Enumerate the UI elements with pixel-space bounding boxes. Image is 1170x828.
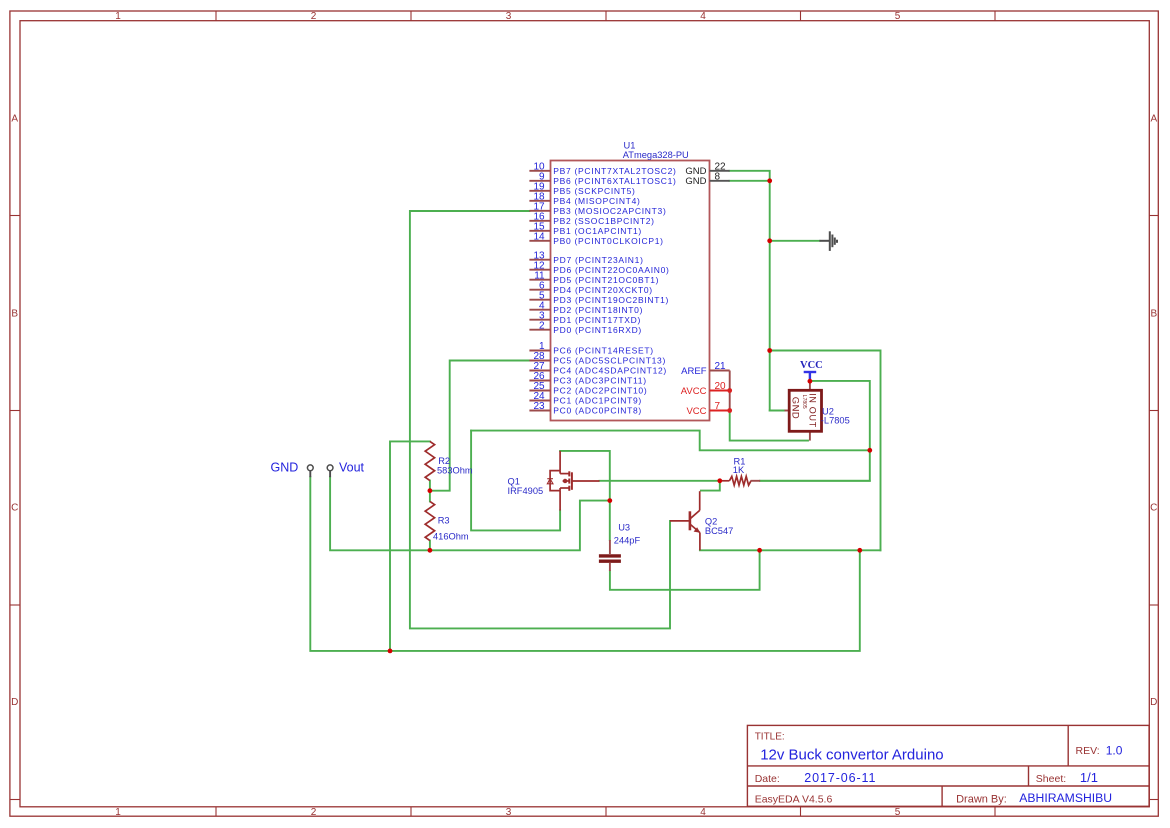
ground	[819, 231, 837, 251]
wire VCC to R1 right	[760, 381, 870, 481]
svg-text:PC3 (ADC3PCINT11): PC3 (ADC3PCINT11)	[553, 376, 646, 386]
svg-text:IN OUT: IN OUT	[807, 393, 817, 428]
svg-text:416Ohm: 416Ohm	[433, 532, 469, 542]
svg-text:244pF: 244pF	[614, 536, 641, 546]
svg-text:2: 2	[311, 807, 317, 818]
wire feedback divider to PC5 pin28	[430, 361, 530, 491]
svg-text:BC547: BC547	[705, 526, 733, 536]
svg-text:20: 20	[715, 381, 727, 392]
wire GND pin8	[730, 180, 770, 182]
svg-text:2: 2	[311, 11, 317, 22]
junction VCC at U2 IN	[808, 379, 813, 384]
svg-text:EasyEDA V4.5.6: EasyEDA V4.5.6	[755, 794, 833, 806]
svg-text:C: C	[11, 503, 18, 514]
svg-text:R2: R2	[438, 456, 450, 466]
svg-text:AREF: AREF	[681, 366, 707, 377]
svg-text:5: 5	[895, 11, 901, 22]
wire R2 top to GND drop	[390, 441, 430, 651]
svg-text:3: 3	[506, 11, 512, 22]
svg-text:1K: 1K	[733, 465, 745, 475]
regulator U2 L7805 pins	[809, 381, 811, 390]
wire GND pin22 to vertical	[730, 171, 770, 181]
svg-text:1/1: 1/1	[1080, 770, 1098, 785]
svg-text:C: C	[1150, 503, 1157, 514]
junction R3 bottom / Vout rail	[428, 548, 433, 553]
svg-text:GND: GND	[789, 397, 800, 419]
wire R1 junction down to Q2 collector	[701, 481, 720, 491]
pin 3 PD1 of U1	[529, 319, 550, 321]
svg-text:PD3 (PCINT19OC2BINT1): PD3 (PCINT19OC2BINT1)	[553, 295, 669, 305]
svg-text:B: B	[1150, 309, 1157, 320]
wire big loop to Q1 drain bottom	[471, 431, 560, 531]
svg-text:R3: R3	[438, 516, 450, 526]
pin 26 PC3 of U1	[529, 380, 550, 382]
svg-text:-L7805: -L7805	[821, 416, 850, 426]
junction AVCC pin 20	[727, 388, 732, 393]
junction GND pins 22-8	[767, 178, 772, 183]
svg-text:PB2 (SSOC1BPCINT2): PB2 (SSOC1BPCINT2)	[553, 216, 654, 226]
pin 1 PC6 of U1	[529, 350, 550, 352]
pin 12 PD6 of U1	[529, 269, 550, 271]
svg-text:PB6 (PCINT6XTAL1TOSC1): PB6 (PCINT6XTAL1TOSC1)	[553, 176, 676, 186]
wire emitter rail y=550	[700, 549, 881, 551]
svg-text:8: 8	[715, 171, 721, 182]
svg-text:23: 23	[533, 401, 545, 412]
pin 15 PB1 of U1	[529, 230, 550, 232]
frame column ticks	[215, 11, 217, 21]
resistor R2 583Ohm	[425, 441, 434, 480]
svg-text:12v Buck convertor Arduino: 12v Buck convertor Arduino	[760, 747, 943, 764]
wire AVCC net down to U2 OUT	[730, 411, 808, 441]
pin 20 AVCC of U1	[710, 390, 730, 392]
wire Vout terminal to R3 bottom and switch node	[330, 477, 610, 550]
svg-text:GND: GND	[271, 461, 299, 475]
junction emitter rail / GND drop	[857, 548, 862, 553]
svg-text:PB3 (MOSIOC2APCINT3): PB3 (MOSIOC2APCINT3)	[553, 206, 666, 216]
svg-text:PD1 (PCINT17TXD): PD1 (PCINT17TXD)	[553, 315, 641, 325]
junction VCC-R1 and wire A	[867, 448, 872, 453]
svg-text:2: 2	[539, 320, 545, 331]
junction GND net right loop	[767, 348, 772, 353]
pin 10 PB7 of U1	[529, 170, 550, 172]
svg-text:REV:: REV:	[1076, 745, 1100, 757]
svg-text:1.0: 1.0	[1106, 744, 1123, 758]
svg-text:PB1 (OC1APCINT1): PB1 (OC1APCINT1)	[553, 226, 642, 236]
wire R3 bottom stub	[429, 541, 431, 551]
pin 4 PD2 of U1	[529, 309, 550, 311]
pin 14 PB0 of U1	[529, 240, 550, 242]
wire Q1 source top to switch node	[560, 451, 610, 540]
pin 11 PD5 of U1	[529, 279, 550, 281]
pin 5 PD3 of U1	[529, 299, 550, 301]
junction R2-R3 divider tap	[428, 488, 433, 493]
pin 16 PB2 of U1	[529, 220, 550, 222]
svg-text:PD5 (PCINT21OC0BT1): PD5 (PCINT21OC0BT1)	[553, 275, 659, 285]
wire Q2 base loop to PB3	[410, 211, 670, 628]
wire GND net right loop	[770, 351, 881, 551]
svg-text:D: D	[11, 697, 18, 708]
pin 19 PB5 of U1	[529, 190, 550, 192]
resistor R3 416Ohm	[425, 501, 434, 540]
svg-text:B: B	[11, 309, 18, 320]
pin 24 PC1 of U1	[529, 400, 550, 402]
svg-text:PB0 (PCINT0CLKOICP1): PB0 (PCINT0CLKOICP1)	[553, 236, 663, 246]
svg-text:14: 14	[533, 231, 545, 242]
svg-text:IRF4905: IRF4905	[508, 486, 544, 496]
wire R2 bottom stub	[429, 481, 431, 491]
svg-text:583Ohm: 583Ohm	[437, 466, 473, 476]
capacitor U3 244pF	[609, 540, 611, 554]
svg-text:PB7 (PCINT7XTAL2TOSC2): PB7 (PCINT7XTAL2TOSC2)	[553, 166, 676, 176]
svg-text:PC5 (ADC5SCLPCINT13): PC5 (ADC5SCLPCINT13)	[553, 356, 666, 366]
svg-text:4: 4	[700, 807, 706, 818]
svg-text:4: 4	[700, 11, 706, 22]
svg-text:A: A	[1150, 114, 1157, 125]
frame row ticks	[10, 215, 20, 217]
svg-text:PD6 (PCINT22OC0AAIN0): PD6 (PCINT22OC0AAIN0)	[553, 265, 669, 275]
svg-text:Q1: Q1	[508, 477, 520, 487]
wire GND vertical bus	[769, 181, 771, 411]
wire U2 left pin to GND bus	[770, 410, 785, 412]
svg-text:PD2 (PCINT18INT0): PD2 (PCINT18INT0)	[553, 305, 643, 315]
transistor Q2 BC547	[670, 491, 700, 550]
pin 18 PB4 of U1	[529, 200, 550, 202]
svg-text:Sheet:: Sheet:	[1036, 773, 1066, 785]
transistor Q1 IRF4905	[550, 451, 599, 511]
svg-text:PB5 (SCKPCINT5): PB5 (SCKPCINT5)	[553, 186, 635, 196]
svg-text:PC0 (ADC0PCINT8): PC0 (ADC0PCINT8)	[553, 406, 642, 416]
pin 23 PC0 of U1	[529, 410, 550, 412]
svg-text:ATmega328-PU: ATmega328-PU	[623, 150, 689, 160]
IC U1 ATmega328-PU body	[551, 161, 710, 421]
junction emitter rail / U3 bottom	[757, 548, 762, 553]
svg-text:A: A	[11, 114, 18, 125]
wire Q1 gate to R1 junction	[600, 480, 720, 482]
svg-text:5: 5	[895, 807, 901, 818]
svg-text:D: D	[1150, 697, 1157, 708]
pin 22 GND of U1	[710, 170, 730, 172]
pin 8 GND of U1	[710, 180, 730, 182]
junction VCC pin 7	[727, 408, 732, 413]
junction switch node at U3 top	[607, 498, 612, 503]
title block	[747, 725, 1149, 806]
pin 27 PC4 of U1	[529, 370, 550, 372]
svg-text:21: 21	[715, 361, 727, 372]
svg-text:PB4 (MISOPCINT4): PB4 (MISOPCINT4)	[553, 196, 640, 206]
wire R1 right green	[760, 480, 870, 482]
svg-text:AVCC: AVCC	[681, 386, 707, 397]
pin 9 PB6 of U1	[529, 180, 550, 182]
svg-text:GND: GND	[685, 176, 706, 187]
svg-text:VCC: VCC	[800, 360, 823, 371]
svg-text:1: 1	[115, 807, 121, 818]
junction R1 left / Q1 gate / Q2 collector	[717, 478, 722, 483]
resistor R1 1K	[722, 480, 729, 482]
svg-text:TITLE:: TITLE:	[755, 732, 785, 743]
svg-text:ABHIRAMSHIBU: ABHIRAMSHIBU	[1019, 791, 1112, 805]
wire GND terminal down and bottom rail	[310, 477, 860, 651]
svg-text:1: 1	[115, 11, 121, 22]
svg-text:PC2 (ADC2PCINT10): PC2 (ADC2PCINT10)	[553, 386, 647, 396]
pin 25 PC2 of U1	[529, 390, 550, 392]
svg-text:3: 3	[506, 807, 512, 818]
wire R3 top stub	[429, 491, 431, 502]
svg-text:VCC: VCC	[686, 406, 706, 417]
junction GND rail / R2 drop	[388, 649, 393, 654]
pin 13 PD7 of U1	[529, 259, 550, 261]
svg-text:PC4 (ADC4SDAPCINT12): PC4 (ADC4SDAPCINT12)	[553, 366, 667, 376]
svg-text:PD0 (PCINT16RXD): PD0 (PCINT16RXD)	[553, 325, 642, 335]
svg-text:L7805: L7805	[801, 395, 807, 409]
svg-text:PC1 (ADC1PCINT9): PC1 (ADC1PCINT9)	[553, 396, 642, 406]
pin 21 AREF of U1	[710, 370, 730, 372]
pin 17 PB3 of U1	[529, 210, 550, 212]
svg-text:Vout: Vout	[339, 461, 365, 475]
svg-text:Drawn By:: Drawn By:	[956, 794, 1007, 806]
svg-text:Q2: Q2	[705, 517, 717, 527]
junction GND to ground symbol	[767, 238, 772, 243]
svg-text:U3: U3	[618, 523, 630, 533]
pin 6 PD4 of U1	[529, 289, 550, 291]
pin 2 PD0 of U1	[529, 329, 550, 331]
svg-text:PD4 (PCINT20XCKT0): PD4 (PCINT20XCKT0)	[553, 285, 653, 295]
svg-text:7: 7	[715, 401, 721, 412]
svg-text:PD7 (PCINT23AIN1): PD7 (PCINT23AIN1)	[553, 255, 643, 265]
pin 7 VCC of U1	[710, 410, 730, 412]
svg-text:Date:: Date:	[755, 773, 780, 785]
wire A chip-bottom loop to GND vertical	[471, 431, 870, 451]
pin 28 PC5 of U1	[529, 360, 550, 362]
wire cap bottom to emitter rail	[610, 550, 760, 590]
wire to ground symbol	[770, 240, 820, 242]
svg-text:2017-06-11: 2017-06-11	[804, 771, 876, 785]
wire AREF down the red bus	[729, 371, 731, 411]
svg-text:PC6 (PCINT14RESET): PC6 (PCINT14RESET)	[553, 346, 653, 356]
